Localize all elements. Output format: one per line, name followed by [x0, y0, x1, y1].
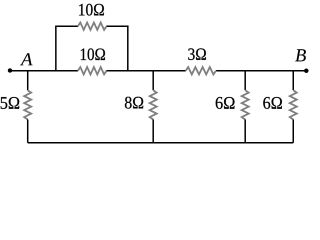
wire 8ohm branch upper: [152, 71, 154, 90]
wire bottom: [28, 142, 294, 144]
label R2 10ohm: [81, 48, 105, 60]
label R3 3ohm: [188, 48, 206, 60]
resistor R4 5ohm: [24, 90, 31, 119]
wire 6ohm left branch lower: [244, 120, 246, 143]
wire 5ohm branch upper: [27, 71, 29, 90]
resistor R7 6ohm right: [290, 90, 297, 119]
label R1 10ohm: [79, 4, 104, 16]
wire top middle (R2 to R3): [106, 70, 185, 72]
label B: [295, 49, 306, 61]
label A: [20, 53, 33, 65]
wire loop left vertical: [55, 26, 57, 71]
wire loop top left: [55, 25, 78, 27]
wire 5ohm branch lower: [27, 120, 29, 143]
wire loop top right: [106, 25, 128, 27]
label R5 8ohm: [125, 97, 143, 109]
wire 6ohm right branch upper: [292, 71, 294, 90]
wire top right (R3 to B): [216, 70, 306, 72]
resistor R6 6ohm left: [242, 90, 249, 119]
node A: [8, 68, 12, 72]
resistor R5 8ohm: [150, 90, 157, 119]
resistor R3 3ohm: [186, 67, 216, 74]
wire top left (A to R2): [10, 70, 78, 72]
wire 6ohm left branch upper: [244, 71, 246, 90]
resistor R2 10ohm main: [78, 67, 107, 74]
label R6 6ohm: [216, 97, 235, 109]
node B: [304, 69, 308, 73]
resistor R1 10ohm upper: [78, 23, 107, 30]
label R4 5ohm: [1, 97, 20, 109]
wire 6ohm right branch lower: [292, 120, 294, 143]
label R7 6ohm: [263, 97, 282, 109]
wire 8ohm branch lower: [152, 120, 154, 143]
wire loop right vertical: [127, 26, 129, 71]
